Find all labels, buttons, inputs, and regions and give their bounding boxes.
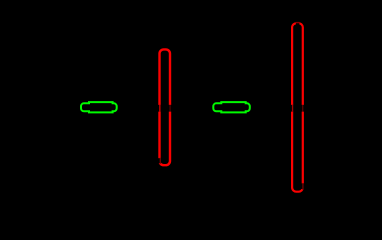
- bottom-right cap pinch on red pill 2: [301, 183, 304, 189]
- junction bridge left (pin overlap): [159, 105, 160, 112]
- net highlight N3 (green pill, right horizontal wire segment): [213, 102, 250, 112]
- upper segment outline: [292, 23, 303, 105]
- bottom-left cap pinch on red pill 1: [158, 158, 161, 163]
- lower segment outline: [292, 112, 303, 192]
- junction bridge right (pin overlap, dim): [170, 105, 171, 112]
- junction bridge left (pin overlap): [292, 105, 293, 112]
- junction bridge right (pin overlap, dim): [302, 105, 303, 112]
- top apex pinch on red pill 2: [296, 21, 300, 24]
- net highlight N2 (red pill, first vertical wire): [160, 49, 171, 165]
- lower segment outline: [160, 112, 171, 166]
- net highlight N4 (red pill, second vertical wire): [292, 23, 303, 191]
- net highlight N1 (green pill, left horizontal wire segment): [81, 102, 117, 112]
- upper segment outline: [160, 49, 171, 105]
